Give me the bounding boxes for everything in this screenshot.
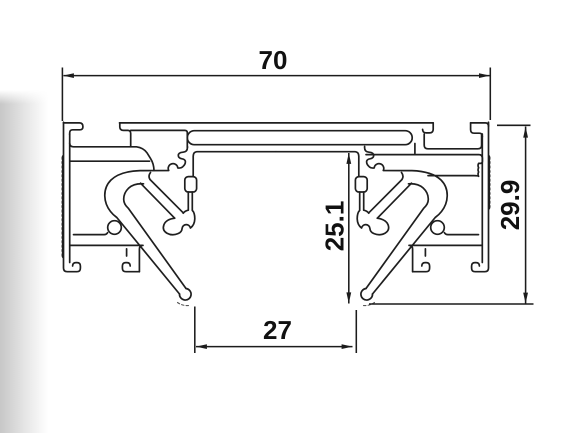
bottom web line — [70, 244, 142, 246]
corner cleat tube — [185, 177, 197, 192]
top right outer edge — [471, 123, 489, 126]
right channel left lip hook — [423, 123, 434, 133]
strut lower line — [141, 183, 175, 218]
bottom channel block right side — [139, 245, 143, 271]
top channel right tab hook + interior right wall — [120, 123, 131, 147]
svg-text:25.1: 25.1 — [320, 201, 350, 252]
tube-foot neck left — [187, 192, 189, 210]
bottom channel right lip finger — [122, 263, 139, 272]
dim 29.9 extension line top — [497, 124, 531, 126]
outer side wall + bottom lip finger — [64, 122, 81, 272]
dim 25.1 dimension line — [348, 153, 350, 304]
right channel right lip hook — [471, 123, 483, 137]
wall serration (knurl) — [61, 156, 64, 209]
tube-foot neck right — [191, 192, 193, 210]
dim 70 dimension line — [64, 75, 490, 77]
S-curl + ball bump + floor2 + bend + lower leg outer line — [105, 147, 188, 295]
top wall bottom line half + hanging wall right face — [193, 152, 276, 177]
strut upper line — [149, 173, 183, 213]
interior top line + box right wall — [131, 130, 188, 147]
hidden-line dashes under tip — [178, 303, 190, 306]
right channel interior box — [424, 134, 481, 149]
dim 27 extension line right — [355, 310, 357, 353]
corner ball node — [108, 221, 122, 235]
svg-text:27: 27 — [263, 315, 292, 345]
left wall lower serration — [61, 209, 64, 257]
dim 70 extension line right — [489, 68, 491, 121]
slot end outer wall — [414, 144, 416, 154]
top wall hollow slot — [187, 131, 412, 145]
arrowhead 25.1 top — [346, 153, 351, 164]
arrowhead 27 right — [342, 344, 353, 349]
dim 29.9 extension line bottom — [369, 303, 534, 305]
arrowhead 70 left — [63, 73, 74, 78]
chamber floor — [74, 233, 108, 235]
inner side wall — [69, 134, 71, 263]
foot notch — [183, 210, 188, 213]
dim 29.9 dimension line — [525, 127, 527, 304]
arrowhead 29.9 bottom — [523, 293, 528, 304]
arrowhead 25.1 bottom — [346, 292, 351, 303]
lip top-left outer hook — [64, 123, 83, 135]
dim 27 extension line left — [194, 307, 196, 354]
bottom channel interior right wall — [126, 249, 128, 256]
diagonal upper leg inner line + lower leg inner line — [124, 184, 186, 289]
anchor foot — [163, 210, 194, 234]
svg-text:70: 70 — [259, 45, 288, 75]
bottom tip — [179, 289, 191, 301]
dim 27 dimension line — [196, 346, 353, 348]
top outer surface line — [120, 122, 434, 124]
arrowhead 70 right — [479, 73, 490, 78]
right rebate shelf + inner knurl + lower shelf — [366, 155, 482, 177]
svg-text:29.9: 29.9 — [495, 180, 525, 231]
arrowhead 29.9 top — [523, 127, 528, 138]
dim 70 extension line left — [61, 68, 63, 122]
channel mid web line — [70, 160, 150, 162]
arrowhead 27 left — [196, 344, 207, 349]
top channel interior floor + step down — [70, 143, 154, 170]
